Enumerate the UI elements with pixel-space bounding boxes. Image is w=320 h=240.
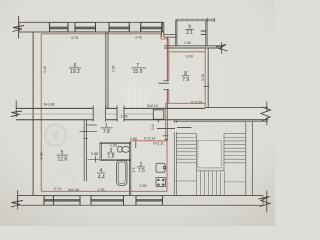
room 8 right wall gray [207,48,209,108]
wall between room6 and room7 [106,32,108,108]
stair lower flight verticals [196,171,224,196]
bottom exterior wall band [18,196,264,206]
stair right wall outer [251,121,253,195]
paper grain [0,0,1,1]
middle thick wall band [16,107,205,109]
bottom window WC [136,196,163,206]
stair top wall [174,120,268,122]
bottom pier 1 [18,196,45,206]
band left break [15,101,17,118]
top wall pier 4 [129,22,140,32]
door gap room6 in band [93,107,105,121]
bottom red boundary [41,190,167,192]
top wall right return [162,22,164,37]
stair left flight edge [195,134,197,171]
window W2 top wall [75,22,96,32]
toilet [118,147,122,152]
bottom window WA [44,196,80,206]
top wall pier 3 [96,22,110,32]
stair right wall inner [245,121,247,195]
bath door jamb [94,156,96,163]
window W1 top wall [50,22,69,32]
bathtub outer [117,160,127,185]
watermark ring 1 [45,125,66,146]
WC left wall [100,143,102,159]
room 8 door leaf [159,82,169,84]
room 8 right red [204,46,206,108]
kitchen door leaf [135,141,137,148]
balcony window marks [201,31,206,34]
wall stub below balcony left [164,35,177,38]
room 8 red boundary top [169,51,205,53]
break symbol left end of top wall [18,16,20,39]
kitchen top red [131,140,167,142]
elevator shaft dashed [198,140,221,168]
bottom pier 3 [124,196,137,206]
stair left landing line [174,180,196,182]
window W3 top wall [109,22,129,32]
wall WC-right / kitchen-left gray [129,142,130,197]
top wall pier 2 [68,22,75,32]
top exterior wall band edges [19,22,164,32]
left red boundary [40,34,42,192]
wall room5 / corridor [84,120,86,182]
entrance door leaf [157,127,191,130]
bottom pier 2 [80,196,91,206]
kitchen sink [156,163,165,172]
balcony right wall [206,21,207,47]
WC bottom wall [88,159,132,160]
door gap room7 in band [117,107,124,121]
kitchen stove [156,178,166,187]
stair right flight steps [224,134,246,163]
top wall pier 1 [19,22,50,32]
bottom window WB [91,196,124,206]
corridor right gray [166,108,168,141]
red boundary left of room8 [168,39,170,103]
watermark streaks room7 [127,86,148,107]
entrance door gap [174,123,178,132]
band right break [266,102,268,113]
wall between room7 and room8 [166,37,168,108]
break symbol right of balcony slab [216,45,228,52]
vestibule tick marks [163,136,169,140]
balcony floor slab [164,46,222,48]
closet notch in band [153,110,164,120]
red boundary along top wall [41,34,169,39]
middle band light fill [16,109,205,119]
stair left flight steps [177,134,196,163]
bottom pier 4 long [163,196,264,206]
room 8 right wall dash [204,86,210,88]
bathtub inner [118,162,125,184]
window W4 top wall [141,22,163,32]
stair right landing line [224,181,246,183]
balcony left wall [176,20,177,46]
stair left wall [174,120,176,196]
stair lower flight top line [196,170,224,172]
room5 door jamb tick [80,130,98,132]
corridor right red boundary [166,103,169,191]
elevator shaft light fill [198,141,220,168]
bottom band left break [17,190,19,210]
watermark ring 2 [52,172,74,194]
railing end ticks [207,18,214,23]
bottom band right break [259,197,271,207]
left exterior wall gray [32,32,34,196]
room5 door leaf [86,124,97,126]
stair right flight edge [223,134,225,171]
WC top wall [100,142,131,143]
room 8 bottom red [169,102,205,104]
balcony railing hatched [176,19,215,21]
